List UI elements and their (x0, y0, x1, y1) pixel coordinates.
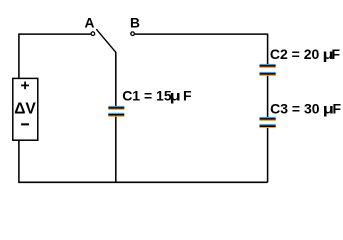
svg-text:F: F (183, 88, 192, 104)
svg-text:F: F (333, 100, 342, 116)
svg-text:C1 = 15: C1 = 15 (122, 88, 172, 104)
svg-text:μ: μ (170, 89, 181, 105)
svg-text:ΔV: ΔV (14, 101, 36, 118)
svg-text:A: A (85, 16, 95, 31)
svg-text:C2 = 20: C2 = 20 (270, 46, 320, 62)
svg-text:B: B (130, 16, 140, 31)
svg-text:F: F (332, 46, 341, 62)
svg-text:C3 = 30: C3 = 30 (270, 100, 320, 116)
